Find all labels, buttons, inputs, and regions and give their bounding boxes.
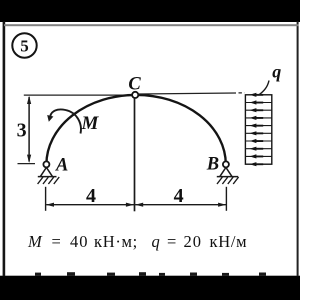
- q leader line: [259, 81, 270, 96]
- moment M curved arrow: [50, 109, 81, 133]
- top frame rule: [4, 24, 299, 26]
- arrowhead right end: [218, 203, 226, 207]
- load arrowheads pointing left: [250, 93, 264, 167]
- support B triangle: [220, 167, 232, 176]
- support B hatching: [217, 177, 239, 184]
- arch (three-hinged, elliptical): [46, 95, 225, 164]
- support B pin: [223, 161, 229, 167]
- cut-off glyph ticks above bottom band: [35, 272, 266, 276]
- arrowhead down: [27, 155, 31, 163]
- support A triangle: [40, 167, 52, 176]
- svg-text:3: 3: [17, 120, 27, 142]
- top black scan band: [0, 0, 300, 22]
- svg-text:A: A: [55, 155, 68, 175]
- distributed load q rectangle: [245, 95, 271, 164]
- axis line below C: [134, 98, 136, 211]
- arrowhead up: [27, 96, 31, 104]
- moment arrowhead: [47, 115, 53, 122]
- support A hatching: [38, 177, 60, 184]
- dashed continuation: [239, 92, 245, 94]
- arrowhead at centre (pointing right): [126, 203, 134, 207]
- bottom black scan band: [0, 276, 300, 300]
- extension line below A: [45, 187, 47, 211]
- svg-text:M: M: [81, 113, 100, 134]
- right frame border line: [297, 22, 299, 277]
- lower reference line at support A level: [18, 163, 36, 165]
- left frame border line: [3, 22, 6, 277]
- load rungs and arrows: [245, 103, 271, 157]
- svg-text:M=40кН·м;q=20кН/м: M=40кН·м;q=20кН/м: [27, 232, 247, 251]
- arrowhead left end: [46, 203, 54, 207]
- circled number 5 badge: [12, 33, 36, 57]
- dimension line 4 (left): [46, 204, 134, 206]
- top horizontal reference line: [24, 94, 132, 96]
- svg-text:4: 4: [86, 185, 96, 207]
- support B ground line: [217, 176, 238, 178]
- support A pin: [43, 161, 49, 167]
- extension line below B: [225, 187, 227, 211]
- svg-text:5: 5: [20, 37, 29, 56]
- reference line from C to load: [139, 93, 236, 94]
- dimension line 4 (right): [135, 204, 226, 206]
- svg-text:B: B: [206, 154, 219, 174]
- arrowhead at centre (pointing left): [135, 203, 143, 207]
- svg-text:C: C: [128, 75, 141, 95]
- hinge C circle: [132, 92, 138, 98]
- svg-text:4: 4: [174, 185, 184, 207]
- dimension line 3 (vertical): [28, 97, 30, 162]
- svg-text:q: q: [272, 62, 281, 82]
- support A ground line: [38, 176, 57, 178]
